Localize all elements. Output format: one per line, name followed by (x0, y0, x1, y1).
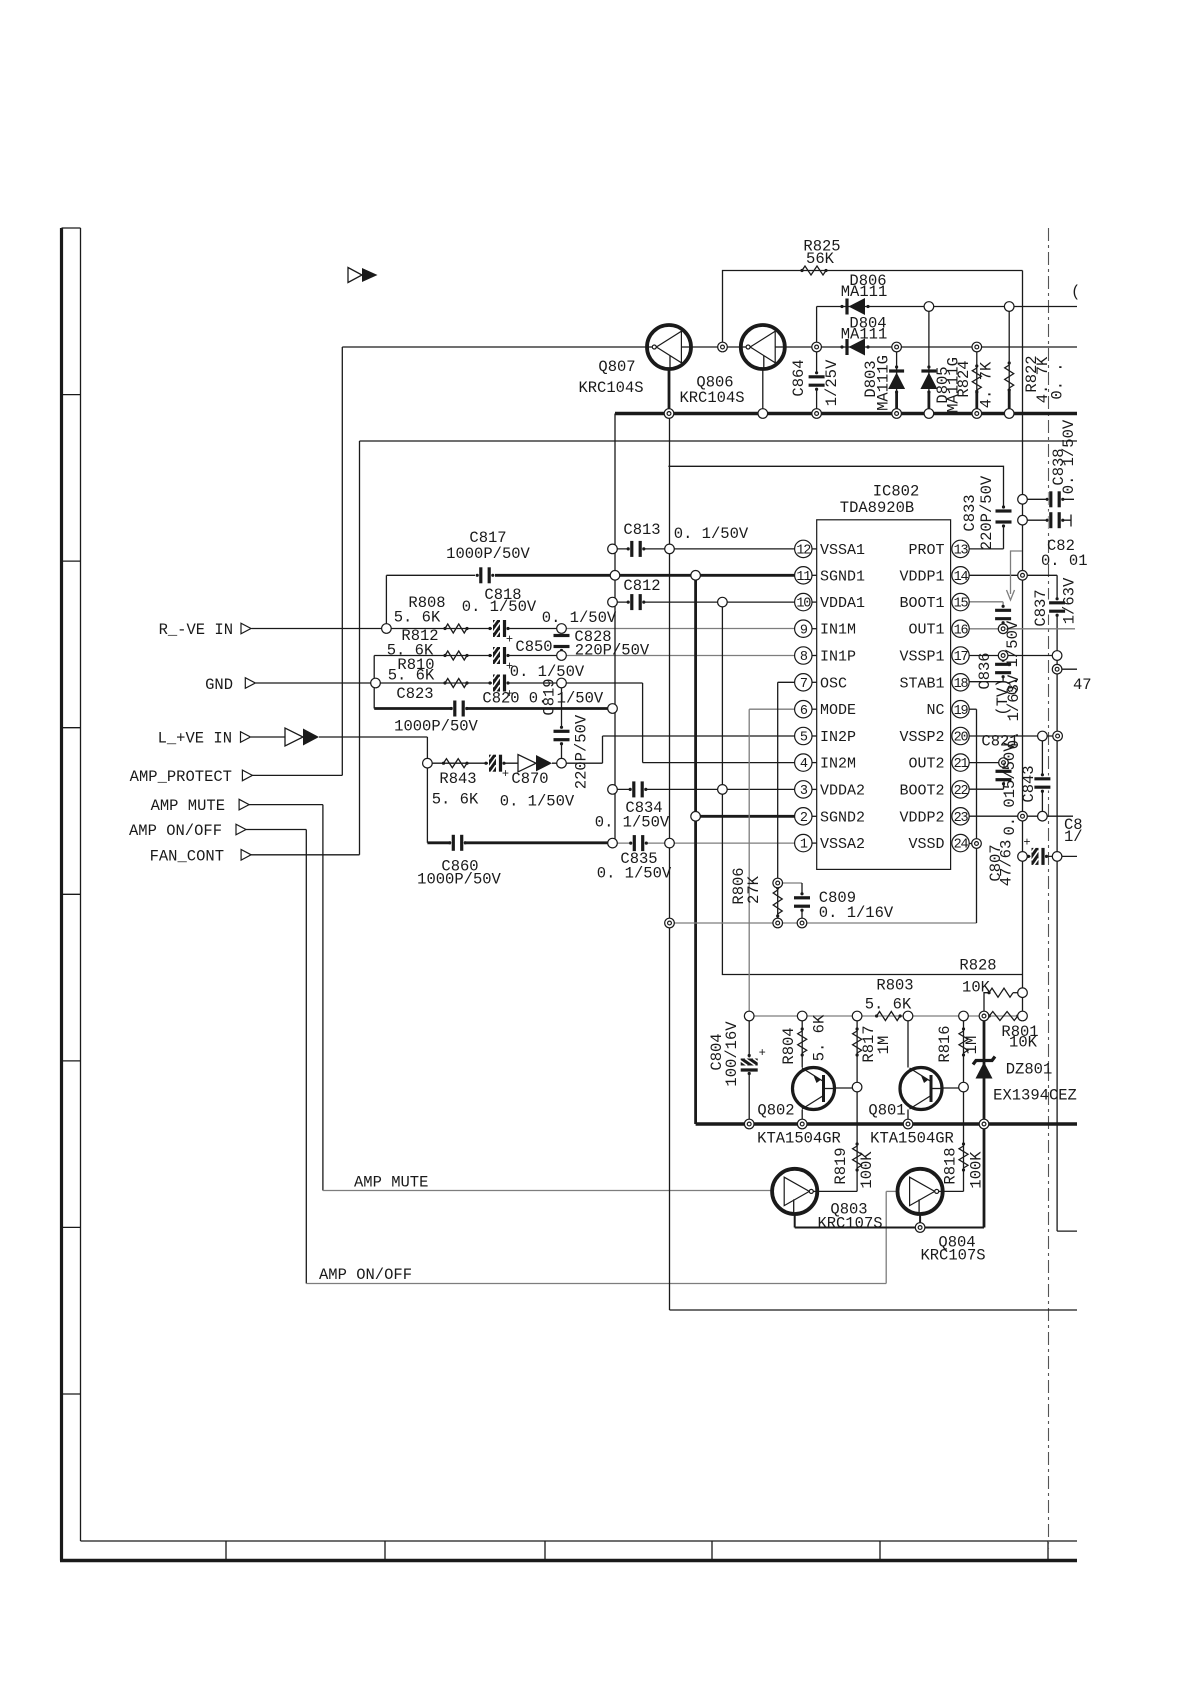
svg-text:NC: NC (926, 702, 944, 719)
svg-text:8: 8 (800, 650, 808, 665)
svg-text:100/16V: 100/16V (723, 1021, 741, 1087)
svg-text:VDDA2: VDDA2 (820, 782, 865, 799)
svg-text:OUT2: OUT2 (908, 756, 944, 773)
svg-text:17: 17 (954, 650, 969, 665)
svg-text:C823: C823 (396, 685, 433, 703)
svg-text:11: 11 (796, 570, 811, 585)
svg-text:EX1394CEZ: EX1394CEZ (993, 1087, 1077, 1105)
svg-text:0. 015/50V: 0. 015/50V (1001, 742, 1019, 836)
svg-text:14: 14 (954, 570, 969, 585)
svg-text:KRC104S: KRC104S (679, 389, 744, 407)
svg-text:C819: C819 (541, 678, 559, 715)
svg-text:KTA1504GR: KTA1504GR (757, 1130, 841, 1148)
svg-text:DZ801: DZ801 (1006, 1061, 1053, 1079)
svg-text:KRC107S: KRC107S (920, 1247, 985, 1265)
svg-text:12: 12 (796, 544, 811, 559)
svg-text:R824: R824 (955, 360, 973, 397)
svg-text:5. 6K: 5. 6K (432, 791, 479, 809)
svg-text:C870: C870 (511, 770, 548, 788)
svg-text:0. 1/50V: 0. 1/50V (542, 609, 617, 627)
svg-text:FAN_CONT: FAN_CONT (150, 848, 224, 866)
svg-text:6: 6 (800, 704, 808, 719)
svg-text:+: + (1023, 835, 1030, 849)
svg-text:VSSP1: VSSP1 (899, 649, 944, 666)
svg-text:23: 23 (954, 811, 969, 826)
svg-text:R828: R828 (959, 957, 996, 975)
svg-text:C837: C837 (1032, 589, 1050, 626)
svg-text:13: 13 (954, 544, 969, 559)
svg-text:VSSA2: VSSA2 (820, 836, 865, 853)
svg-text:10K: 10K (962, 979, 991, 997)
svg-text:Q807: Q807 (598, 358, 635, 376)
svg-text:0. 1/50V: 0. 1/50V (462, 598, 537, 616)
svg-text:0. 1/50V: 0. 1/50V (500, 793, 575, 811)
svg-text:IN1M: IN1M (820, 622, 856, 639)
svg-text:5. 6K: 5. 6K (865, 996, 912, 1014)
svg-text:0. .: 0. . (1049, 362, 1067, 399)
svg-text:3: 3 (800, 784, 808, 799)
svg-text:15: 15 (954, 597, 969, 612)
svg-text:R819: R819 (832, 1147, 850, 1184)
svg-text:19: 19 (954, 704, 969, 719)
svg-text:47: 47 (1073, 676, 1092, 694)
svg-text:C864: C864 (790, 359, 808, 396)
svg-text:1/: 1/ (1064, 828, 1083, 846)
svg-text:OUT1: OUT1 (908, 622, 944, 639)
svg-text:SGND2: SGND2 (820, 809, 865, 826)
svg-text:GND: GND (205, 676, 233, 694)
svg-text:2: 2 (800, 811, 808, 826)
svg-text:24: 24 (954, 838, 969, 853)
svg-text:47/63: 47/63 (998, 840, 1016, 887)
svg-text:R818: R818 (942, 1147, 960, 1184)
svg-text:VDDP1: VDDP1 (899, 568, 944, 585)
svg-text:PROT: PROT (908, 542, 944, 559)
svg-text:VDDP2: VDDP2 (899, 809, 944, 826)
svg-text:VDDA1: VDDA1 (820, 595, 865, 612)
svg-text:0. 1/50V: 0. 1/50V (674, 525, 749, 543)
svg-text:0. 1/50V: 0. 1/50V (510, 663, 585, 681)
svg-text:5. 6K: 5. 6K (388, 667, 435, 685)
svg-text:10: 10 (796, 597, 811, 612)
svg-text:22: 22 (954, 784, 969, 799)
svg-text:IN2P: IN2P (820, 729, 856, 746)
svg-text:MA111: MA111 (841, 326, 888, 344)
svg-text:10K: 10K (1009, 1034, 1038, 1052)
svg-text:C850: C850 (515, 638, 552, 656)
svg-text:5. 6K: 5. 6K (811, 1014, 829, 1061)
svg-text:AMP ON/OFF: AMP ON/OFF (319, 1266, 412, 1284)
svg-text:220P/50V: 220P/50V (978, 475, 996, 550)
svg-text:0. 1/63V: 0. 1/63V (1005, 674, 1023, 749)
svg-text:5. 6K: 5. 6K (394, 609, 441, 627)
svg-text:MA111: MA111 (841, 283, 888, 301)
svg-text:BOOT2: BOOT2 (899, 782, 944, 799)
svg-text:1/25V: 1/25V (823, 359, 841, 406)
svg-text:R_-VE IN: R_-VE IN (159, 621, 233, 639)
svg-text:1: 1 (800, 838, 808, 853)
svg-text:0. 1/16V: 0. 1/16V (819, 904, 894, 922)
svg-text:KRC107S: KRC107S (817, 1215, 882, 1233)
svg-text:56K: 56K (806, 250, 835, 268)
svg-text:L_+VE IN: L_+VE IN (158, 730, 232, 748)
svg-text:MODE: MODE (820, 702, 856, 719)
svg-text:R843: R843 (439, 770, 476, 788)
svg-text:AMP MUTE: AMP MUTE (354, 1174, 428, 1192)
svg-text:4. 7K: 4. 7K (978, 361, 996, 408)
svg-text:21: 21 (954, 757, 969, 772)
svg-text:0. 1/50V: 0. 1/50V (1060, 419, 1078, 494)
svg-text:1000P/50V: 1000P/50V (394, 718, 478, 736)
svg-text:SGND1: SGND1 (820, 568, 865, 585)
svg-text:Q801: Q801 (868, 1102, 905, 1120)
svg-text:27K: 27K (745, 875, 763, 904)
svg-text:9: 9 (800, 623, 808, 638)
svg-text:16: 16 (954, 623, 969, 638)
svg-text:KRC104S: KRC104S (578, 379, 643, 397)
svg-text:18: 18 (954, 677, 969, 692)
svg-text:C813: C813 (623, 521, 660, 539)
svg-text:7: 7 (800, 677, 808, 692)
svg-text:OSC: OSC (820, 675, 847, 692)
svg-text:1000P/50V: 1000P/50V (446, 545, 530, 563)
svg-text:VSSP2: VSSP2 (899, 729, 944, 746)
svg-text:+: + (506, 633, 513, 647)
svg-text:1M: 1M (963, 1036, 981, 1055)
svg-text:AMP_PROTECT: AMP_PROTECT (130, 768, 232, 786)
svg-text:+: + (759, 1046, 766, 1060)
svg-text:0. 1/50V: 0. 1/50V (595, 814, 670, 832)
svg-text:100K: 100K (968, 1151, 986, 1189)
svg-text:TDA8920B: TDA8920B (840, 499, 914, 517)
svg-text:R816: R816 (936, 1025, 954, 1062)
svg-text:0. 1/50V: 0. 1/50V (597, 865, 672, 883)
svg-text:VSSD: VSSD (908, 836, 944, 853)
svg-text:1M: 1M (875, 1036, 893, 1055)
svg-text:C833: C833 (961, 494, 979, 531)
svg-text:R804: R804 (780, 1027, 798, 1064)
svg-text:BOOT1: BOOT1 (899, 595, 944, 612)
svg-text:MA111G: MA111G (875, 355, 893, 411)
svg-text:IC802: IC802 (873, 483, 920, 501)
svg-text:AMP MUTE: AMP MUTE (151, 797, 225, 815)
svg-text:220P/50V: 220P/50V (575, 642, 650, 660)
svg-text:C820: C820 (482, 690, 519, 708)
svg-text:IN2M: IN2M (820, 756, 856, 773)
svg-text:VSSA1: VSSA1 (820, 542, 865, 559)
svg-text:KTA1504GR: KTA1504GR (870, 1130, 954, 1148)
svg-text:1/63V: 1/63V (1061, 577, 1079, 624)
svg-text:+: + (502, 767, 509, 781)
svg-text:220P/50V: 220P/50V (573, 714, 591, 789)
svg-text:(: ( (1071, 283, 1080, 301)
svg-text:AMP ON/OFF: AMP ON/OFF (129, 822, 222, 840)
svg-text:20: 20 (954, 731, 969, 746)
svg-text:C812: C812 (623, 577, 660, 595)
svg-text:Q802: Q802 (757, 1102, 794, 1120)
svg-text:IN1P: IN1P (820, 649, 856, 666)
svg-text:5: 5 (800, 731, 808, 746)
svg-text:STAB1: STAB1 (899, 675, 944, 692)
svg-text:100K: 100K (858, 1151, 876, 1189)
svg-text:R803: R803 (876, 977, 913, 995)
svg-text:C836: C836 (976, 652, 994, 689)
svg-text:0. 01: 0. 01 (1041, 552, 1088, 570)
svg-text:1000P/50V: 1000P/50V (417, 871, 501, 889)
svg-text:C843: C843 (1020, 765, 1038, 802)
svg-text:4: 4 (800, 757, 808, 772)
